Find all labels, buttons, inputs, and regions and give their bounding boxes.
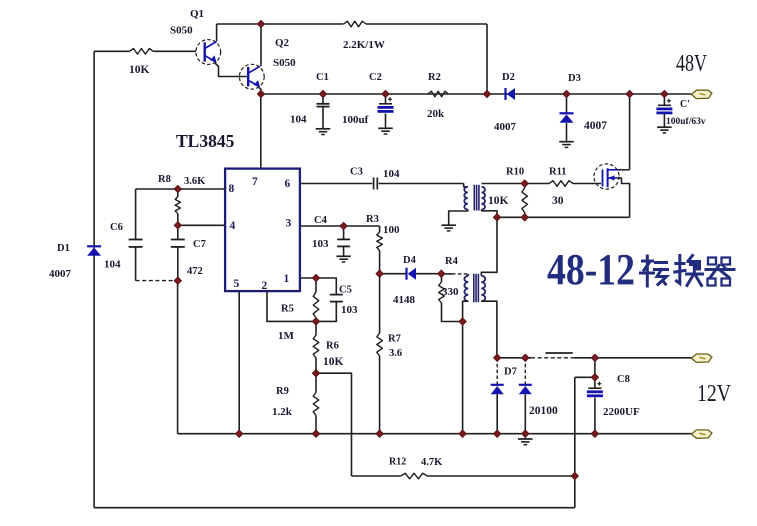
svg-text:48V: 48V [676,51,707,77]
svg-text:2: 2 [262,280,268,292]
svg-text:D7: D7 [504,367,517,378]
svg-text:6: 6 [285,178,291,190]
svg-text:20100: 20100 [529,405,558,417]
svg-text:100uf/63v: 100uf/63v [666,117,706,127]
svg-text:10K: 10K [129,64,150,76]
svg-text:100uf: 100uf [342,114,369,126]
svg-text:TL3845: TL3845 [176,131,235,151]
svg-text:R8: R8 [158,174,171,185]
svg-text:104: 104 [290,114,307,126]
svg-text:Q1: Q1 [190,8,204,20]
svg-text:104: 104 [104,259,121,271]
svg-text:7: 7 [252,176,258,188]
svg-text:103: 103 [312,238,329,250]
svg-text:1M: 1M [278,330,295,342]
svg-text:4: 4 [230,220,236,232]
svg-text:C1: C1 [316,72,329,83]
svg-text:20k: 20k [427,108,445,120]
svg-text:48-12: 48-12 [547,245,635,294]
svg-text:103: 103 [341,304,358,316]
svg-text:R7: R7 [388,334,401,345]
svg-text:S050: S050 [273,57,296,69]
svg-text:R9: R9 [276,386,289,397]
svg-text:C6: C6 [110,222,123,233]
svg-text:4.7K: 4.7K [421,457,443,468]
svg-text:10K: 10K [323,356,344,368]
svg-text:R5: R5 [281,304,294,315]
svg-text:D1: D1 [57,243,70,254]
svg-text:1.2k: 1.2k [272,406,293,418]
svg-text:3.6K: 3.6K [184,176,206,187]
svg-text:R6: R6 [326,341,339,352]
svg-text:10K: 10K [488,195,509,207]
svg-text:R3: R3 [366,214,379,225]
svg-text:3.6: 3.6 [389,348,402,359]
svg-text:R12: R12 [389,457,406,468]
svg-text:2200UF: 2200UF [603,406,640,418]
svg-text:C5: C5 [339,285,352,296]
svg-text:D3: D3 [568,73,581,84]
svg-text:2.2K/1W: 2.2K/1W [343,39,385,51]
svg-text:D4: D4 [403,255,417,266]
svg-text:104: 104 [383,168,400,180]
svg-text:C2: C2 [369,72,382,83]
svg-text:Q2: Q2 [275,37,290,49]
svg-text:C8: C8 [617,374,630,385]
svg-text:8: 8 [229,183,235,195]
svg-text:C′: C′ [680,99,690,110]
svg-text:330: 330 [442,286,459,298]
svg-text:30: 30 [552,195,564,207]
svg-text:C4: C4 [314,215,328,226]
svg-text:C7: C7 [193,239,206,250]
svg-text:100: 100 [383,224,400,236]
svg-text:C3: C3 [350,167,363,178]
svg-text:4007: 4007 [49,268,72,280]
svg-text:3: 3 [286,218,292,230]
svg-text:472: 472 [187,266,203,277]
svg-text:4007: 4007 [584,120,607,132]
svg-text:12V: 12V [697,381,732,407]
svg-text:R10: R10 [506,167,524,178]
svg-text:D2: D2 [502,72,515,83]
svg-text:R11: R11 [549,167,567,178]
svg-text:4007: 4007 [494,121,517,133]
svg-text:1: 1 [284,273,290,285]
svg-text:R2: R2 [428,72,441,83]
svg-text:R4: R4 [445,256,459,267]
svg-text:S050: S050 [170,25,193,37]
svg-text:4148: 4148 [393,294,416,306]
svg-text:5: 5 [234,278,240,290]
